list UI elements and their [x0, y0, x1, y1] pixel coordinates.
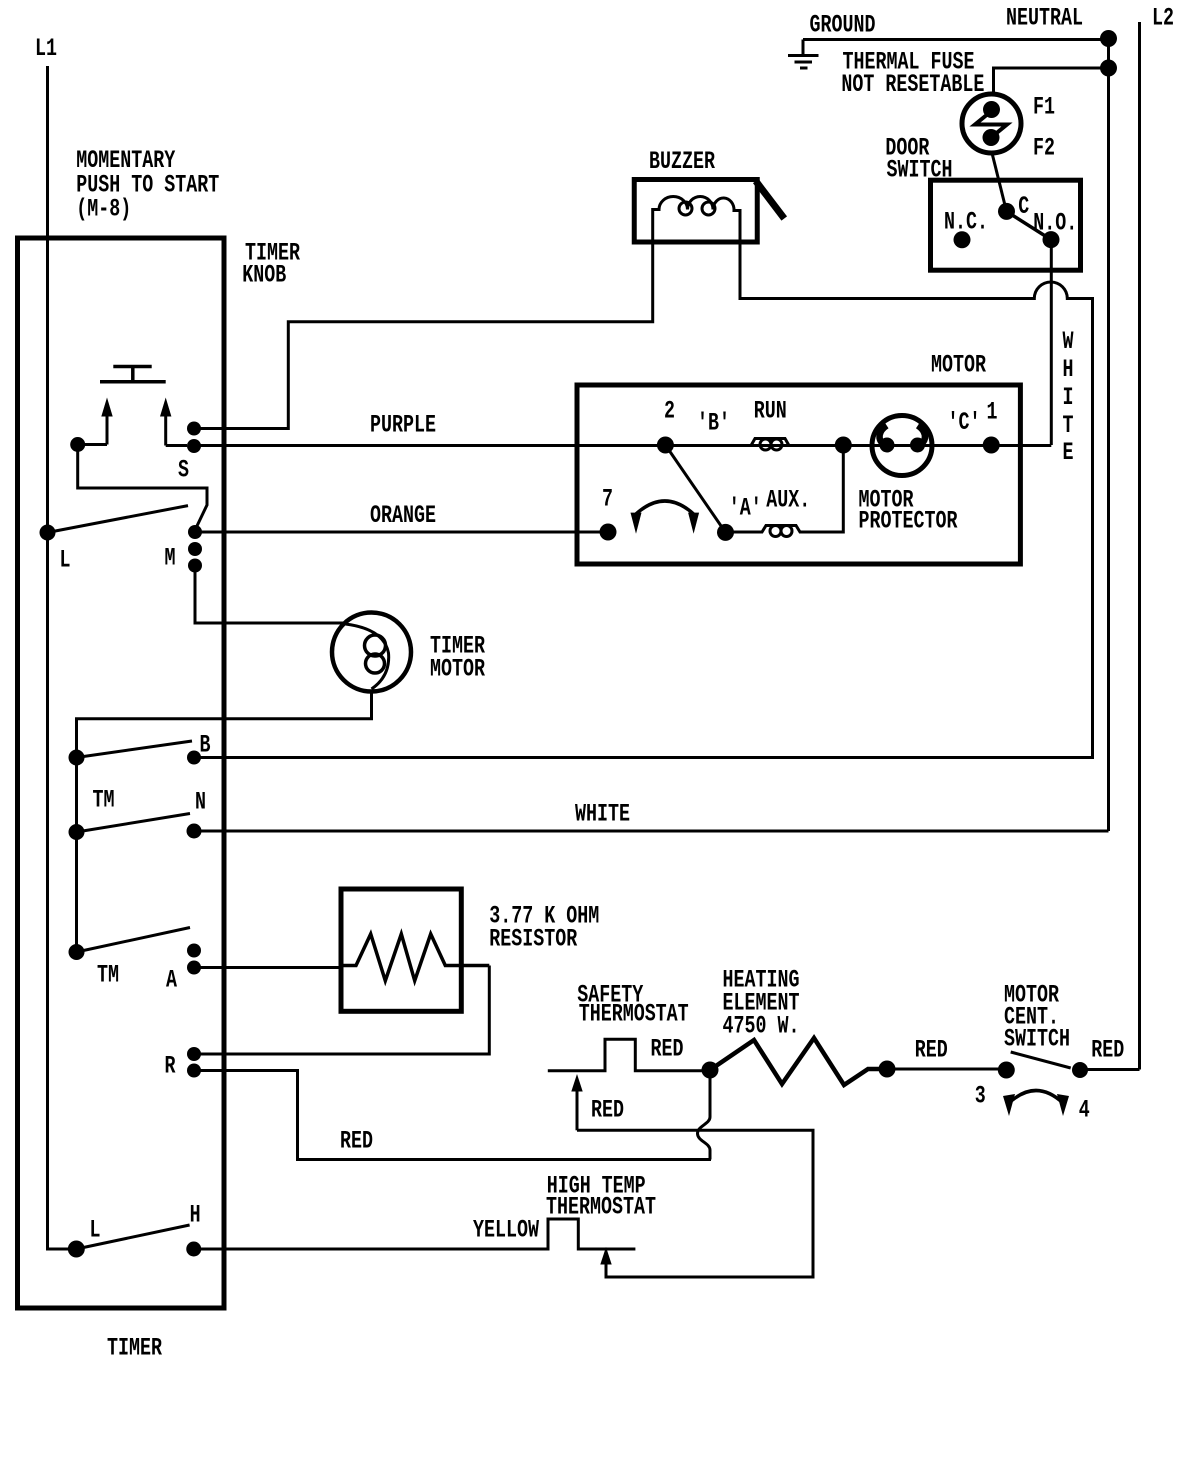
- thermal fuse bolt: [975, 111, 1007, 138]
- svg-text:E: E: [1063, 438, 1074, 467]
- svg-text:C: C: [1018, 192, 1029, 221]
- svg-text:H: H: [1063, 355, 1074, 384]
- door switch arm C-NO: [1007, 211, 1052, 239]
- svg-text:L1: L1: [35, 34, 57, 63]
- contact S: [187, 422, 201, 436]
- svg-text:I: I: [1063, 383, 1074, 412]
- svg-text:PURPLE: PURPLE: [370, 411, 436, 440]
- push button: [100, 380, 166, 384]
- wire N.O. down to motor: [1050, 240, 1053, 445]
- cent switch arc: [1009, 1091, 1063, 1104]
- timer arm TM-B: [77, 741, 193, 758]
- svg-text:F1: F1: [1033, 93, 1055, 122]
- wire thermal fuse feed: [994, 68, 1109, 95]
- svg-text:3: 3: [975, 1082, 986, 1111]
- svg-text:4: 4: [1079, 1096, 1090, 1125]
- motor box: [577, 385, 1020, 564]
- wire red riser with s-bend: [698, 1071, 711, 1160]
- svg-text:T: T: [1063, 411, 1074, 440]
- svg-text:1: 1: [987, 398, 998, 427]
- node TM1: [69, 750, 85, 766]
- svg-text:N.C.: N.C.: [944, 208, 988, 237]
- svg-text:L: L: [60, 546, 71, 575]
- node NEUTRAL junction: [1100, 30, 1117, 47]
- aux winding: [726, 445, 844, 532]
- contact N: [187, 824, 202, 839]
- node heater left: [702, 1062, 719, 1079]
- wire bypass route: [577, 1130, 813, 1277]
- resistor box: [341, 889, 461, 1011]
- high temp thermostat wire: [194, 1219, 635, 1249]
- node L bottom: [68, 1241, 85, 1258]
- thermal fuse F circle: [962, 94, 1021, 153]
- wire neutral vertical: [1107, 40, 1110, 832]
- node 3: [998, 1062, 1015, 1079]
- safety arrow: [576, 1090, 579, 1130]
- wire S to buzzer (timer knob wire): [194, 242, 653, 429]
- svg-text:THERMOSTAT: THERMOSTAT: [579, 1000, 689, 1029]
- motor arc 7-A: [636, 501, 694, 514]
- svg-text:RUN: RUN: [754, 397, 787, 426]
- svg-text:RED: RED: [915, 1036, 948, 1065]
- svg-text:RESISTOR: RESISTOR: [489, 925, 577, 954]
- motor protector U1: [872, 416, 932, 476]
- wire M to timer motor: [195, 566, 346, 624]
- wire buzzer to contact B (with hop): [194, 242, 1093, 758]
- contact R: [187, 1047, 201, 1061]
- svg-text:N: N: [195, 788, 206, 817]
- heating element zigzag: [710, 1038, 887, 1085]
- svg-text:WHITE: WHITE: [575, 800, 630, 829]
- wire timer motor return: [77, 690, 372, 952]
- svg-text:RED: RED: [340, 1127, 373, 1156]
- motor arm 2-A: [665, 445, 725, 532]
- wire push left lead: [78, 443, 107, 446]
- node N.C.: [954, 231, 971, 248]
- svg-text:MOTOR: MOTOR: [430, 655, 485, 684]
- svg-text:AUX.: AUX.: [766, 486, 810, 515]
- svg-text:MOTOR: MOTOR: [931, 351, 986, 380]
- cent switch arm: [1011, 1052, 1071, 1068]
- wire push right lead: [166, 444, 187, 447]
- svg-text:R: R: [165, 1052, 176, 1081]
- svg-text:TM: TM: [97, 961, 119, 990]
- node L: [40, 525, 56, 541]
- wire ORANGE: [195, 531, 608, 534]
- run winding: [751, 439, 789, 446]
- buzzer striker: [756, 181, 785, 219]
- svg-text:RED: RED: [651, 1035, 684, 1064]
- timer motor: [332, 613, 411, 692]
- contact H: [186, 1242, 201, 1257]
- safety thermostat: [548, 1039, 710, 1071]
- pin F1: [983, 101, 1000, 118]
- svg-text:GROUND: GROUND: [810, 11, 876, 40]
- timer arm TM-A: [77, 928, 191, 953]
- svg-text:B: B: [200, 731, 211, 760]
- wire PURPLE: [194, 444, 1051, 447]
- node TM3: [69, 944, 85, 960]
- timer arm L-H: [76, 1225, 189, 1249]
- svg-text:KNOB: KNOB: [242, 261, 286, 290]
- svg-text:'C': 'C': [948, 408, 981, 437]
- svg-text:ORANGE: ORANGE: [370, 501, 436, 530]
- contact A: [187, 944, 201, 958]
- wire 4 to L2: [1080, 1068, 1140, 1071]
- svg-text:YELLOW: YELLOW: [473, 1216, 539, 1245]
- svg-text:PROTECTOR: PROTECTOR: [859, 507, 958, 536]
- bypass arrow: [600, 1247, 611, 1265]
- push arrow right: [164, 415, 167, 446]
- svg-text:A: A: [166, 966, 177, 995]
- svg-text:RED: RED: [1091, 1036, 1124, 1065]
- buzzer coil: [653, 197, 740, 243]
- buzzer box: [634, 180, 757, 243]
- wire heater to switch: [887, 1068, 1004, 1071]
- wire resistor to R: [194, 966, 489, 1055]
- resistor R1 zigzag: [341, 934, 489, 981]
- svg-text:7: 7: [602, 485, 613, 514]
- wire L2 vertical: [1138, 22, 1141, 1070]
- wire A to resistor: [194, 966, 341, 969]
- svg-text:SWITCH: SWITCH: [1004, 1025, 1070, 1054]
- pin 1: [983, 437, 1000, 454]
- svg-text:F2: F2: [1033, 134, 1055, 163]
- svg-text:(M-8): (M-8): [76, 195, 131, 224]
- pin 7: [600, 524, 617, 541]
- svg-text:TM: TM: [93, 786, 115, 815]
- push arrow left: [106, 415, 109, 445]
- door switch box: [931, 180, 1081, 270]
- svg-text:BUZZER: BUZZER: [649, 147, 715, 176]
- ground: [802, 40, 805, 55]
- svg-text:'B': 'B': [697, 409, 730, 438]
- node motor junction: [835, 437, 852, 454]
- svg-text:S: S: [178, 456, 189, 485]
- svg-text:NOT RESETABLE: NOT RESETABLE: [841, 70, 984, 99]
- timer arm L-M: [48, 506, 189, 533]
- svg-text:M: M: [165, 544, 176, 573]
- wire RED from R: [194, 1071, 711, 1160]
- node push pivot: [70, 437, 85, 452]
- node thermal-fuse junction: [1100, 60, 1117, 77]
- svg-text:NEUTRAL: NEUTRAL: [1006, 4, 1083, 33]
- node N.O.: [1043, 231, 1060, 248]
- wire WHITE: [194, 830, 1109, 833]
- node heater right: [879, 1061, 896, 1078]
- svg-text:2: 2: [664, 397, 675, 426]
- svg-text:L2: L2: [1152, 4, 1174, 33]
- node TM2: [69, 824, 85, 840]
- svg-text:L: L: [90, 1216, 101, 1245]
- node C: [998, 203, 1015, 220]
- pin F2: [983, 129, 1000, 146]
- wire ground-neutral horizontal: [803, 38, 1109, 41]
- svg-text:4750 W.: 4750 W.: [723, 1012, 800, 1041]
- wire push down to M: [78, 445, 207, 529]
- svg-text:RED: RED: [591, 1096, 624, 1125]
- pin 'A': [717, 524, 734, 541]
- svg-text:TIMER: TIMER: [107, 1334, 162, 1363]
- wire fuse to C: [992, 153, 1007, 211]
- svg-text:W: W: [1063, 327, 1074, 356]
- timer box: [18, 238, 225, 1308]
- contact M: [188, 525, 202, 539]
- pin 2: [657, 437, 674, 454]
- svg-text:'A': 'A': [729, 494, 762, 523]
- wire L1 vertical: [48, 66, 71, 1249]
- svg-text:THERMOSTAT: THERMOSTAT: [546, 1193, 656, 1222]
- timer arm TM-N: [77, 814, 191, 833]
- node 4: [1072, 1062, 1088, 1078]
- contact B: [187, 751, 201, 765]
- svg-text:H: H: [190, 1201, 201, 1230]
